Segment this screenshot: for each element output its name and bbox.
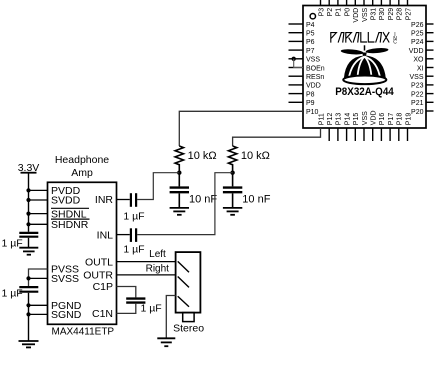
svg-text:P11: P11: [318, 113, 325, 125]
node left filter junction: [177, 171, 181, 175]
svg-text:Left: Left: [149, 249, 166, 260]
chip pin stub P14 (bottom): [346, 128, 348, 141]
connector J1 stereo jack outline: [176, 252, 201, 313]
svg-text:P8: P8: [306, 91, 315, 98]
svg-text:VSS: VSS: [362, 7, 369, 21]
jack contact (tip/Left): [178, 261, 189, 272]
wire left node to INR coupling cap: [137, 173, 179, 200]
svg-text:P21: P21: [411, 100, 424, 107]
chip pin stub P4 (left): [289, 23, 304, 25]
svg-text:BOEn: BOEn: [306, 65, 325, 72]
wire PVSS rail lower: [28, 293, 30, 341]
svg-text:P7: P7: [306, 48, 315, 55]
chip pin stub P30 (top): [380, 0, 382, 6]
svg-text:P12: P12: [327, 113, 334, 126]
chip pin stub VSS (top): [363, 0, 365, 6]
wire C1P stub: [117, 287, 136, 298]
wire SVSS stub: [29, 277, 48, 279]
chip pin stub P29 (top): [389, 0, 391, 6]
svg-text:OUTR: OUTR: [83, 270, 113, 282]
svg-text:SGND: SGND: [51, 309, 82, 321]
svg-text:P9: P9: [306, 100, 315, 107]
chip pin stub P5 (left): [289, 32, 304, 34]
svg-text:P20: P20: [411, 109, 424, 116]
capacitor C4 1 uF (INL coupling): [130, 228, 132, 242]
chip pin stub P26 (right): [426, 23, 434, 25]
svg-text:P31: P31: [371, 8, 378, 21]
svg-text:P6: P6: [306, 39, 315, 46]
svg-text:10 nF: 10 nF: [242, 193, 270, 205]
wire P11 to R2: [233, 128, 321, 146]
junction dot 3.3V rail at SHDNR: [26, 222, 30, 226]
chip pin stub P31 (top): [372, 0, 374, 6]
junction dot SVSS: [26, 276, 30, 280]
svg-text:Right: Right: [146, 264, 170, 275]
wire PGND stub: [29, 304, 48, 306]
svg-text:10 kΩ: 10 kΩ: [241, 150, 270, 162]
chip pin stub P20 (right): [426, 110, 434, 112]
svg-text:P25: P25: [411, 31, 424, 38]
capacitor C2 1 uF (PVSS): [19, 286, 38, 288]
svg-text:P19: P19: [405, 113, 412, 126]
svg-text:SVSS: SVSS: [51, 273, 79, 285]
svg-text:P1: P1: [336, 8, 343, 17]
capacitor C6 10 nF: [232, 173, 234, 187]
resistor R2 10 kOhm: [228, 146, 236, 173]
chip pin stub VSS (left): [289, 58, 304, 60]
svg-text:P29: P29: [388, 8, 395, 21]
chip pin stub P3 (top): [320, 0, 322, 6]
op-amp U2 MAX4411ETP outline: [48, 182, 117, 324]
svg-text:P3: P3: [318, 8, 325, 17]
overline for SHDNR: [51, 218, 90, 220]
wire PVSS to rail: [29, 269, 48, 286]
ground (jack sleeve): [157, 337, 175, 339]
wire C1N stub: [117, 304, 136, 314]
wire 3.3V rail to SHDNL: [29, 213, 48, 215]
overline for SHDNL: [51, 207, 89, 209]
chip pin stub VDD (top): [354, 0, 356, 6]
chip pin stub XI (right): [426, 67, 434, 69]
chip pin stub P24 (right): [426, 40, 434, 42]
chip pin stub VSS (bottom): [363, 128, 365, 141]
jack contact (sleeve): [178, 296, 189, 307]
svg-text:SHDNR: SHDNR: [51, 219, 89, 231]
svg-text:P16: P16: [379, 113, 386, 126]
capacitor C7 1 uF (charge pump): [126, 297, 145, 299]
svg-text:P23: P23: [411, 83, 424, 90]
ground (3.3V bypass): [19, 247, 38, 249]
svg-text:P28: P28: [397, 8, 404, 21]
chip pin stub P28 (top): [398, 0, 400, 6]
Parallax logo wordmark: [331, 33, 389, 42]
svg-text:MAX4411ETP: MAX4411ETP: [51, 326, 114, 337]
svg-text:Headphone: Headphone: [55, 154, 109, 166]
chip U1 pin-1 indicator circle: [310, 14, 315, 19]
wire 3.3V rail to SVDD: [29, 199, 48, 201]
svg-text:XI: XI: [417, 65, 424, 72]
junction dot 3.3V rail at SVDD: [26, 198, 30, 202]
junction dot SGND: [26, 312, 30, 316]
svg-text:P15: P15: [353, 113, 360, 126]
wire OUTL to jack (Left): [117, 261, 176, 263]
chip pin stub P2 (top): [328, 0, 330, 6]
chip pin stub VSS (right): [426, 75, 434, 77]
jack contact (ring/Right): [178, 277, 189, 288]
chip pin stub P23 (right): [426, 84, 434, 86]
ground (right filter): [223, 207, 242, 209]
chip pin stub P21 (right): [426, 101, 434, 103]
chip pin stub XO (right): [426, 58, 434, 60]
svg-text:1 µF: 1 µF: [123, 211, 144, 223]
svg-text:VDD: VDD: [371, 110, 378, 125]
svg-text:1 µF: 1 µF: [123, 244, 144, 256]
chip pin stub P8 (left): [289, 93, 304, 95]
capacitor C3 1 uF (INR coupling): [130, 193, 132, 207]
svg-text:P30: P30: [379, 8, 386, 21]
svg-text:P24: P24: [411, 39, 424, 46]
svg-text:P10: P10: [306, 109, 319, 116]
svg-text:RESn: RESn: [306, 74, 324, 81]
chip pin stub P9 (left): [289, 101, 304, 103]
junction dot PGND: [26, 303, 30, 307]
wire 3.3V rail: [28, 173, 30, 232]
chip U1 P8X32A-Q44 outline: [303, 6, 426, 129]
svg-text:P5: P5: [306, 31, 315, 38]
svg-text:SVDD: SVDD: [51, 195, 81, 207]
chip pin stub P25 (right): [426, 32, 434, 34]
svg-text:INR: INR: [95, 194, 114, 206]
chip pin stub P7 (left): [289, 49, 304, 51]
wire SGND stub: [29, 313, 48, 315]
resistor R1 10 kOhm: [175, 146, 183, 173]
ground (amp rail): [19, 340, 39, 342]
svg-text:P22: P22: [411, 91, 424, 98]
jack tab: [183, 313, 194, 322]
svg-text:P4: P4: [306, 22, 315, 29]
wire INL stub: [117, 234, 130, 236]
ground (left filter): [170, 207, 189, 209]
junction dot 3.3V rail at SHDNL: [26, 212, 30, 216]
chip pin stub P15 (bottom): [354, 128, 356, 141]
svg-text:C1N: C1N: [92, 308, 113, 320]
junction dot VSS-BOEn tie: [292, 57, 296, 61]
svg-text:Amp: Amp: [71, 167, 93, 179]
svg-text:Stereo: Stereo: [173, 323, 204, 335]
svg-text:10 kΩ: 10 kΩ: [188, 150, 217, 162]
chip pin stub P0 (top): [346, 0, 348, 6]
svg-text:XO: XO: [413, 57, 424, 64]
chip pin stub P22 (right): [426, 93, 434, 95]
chip pin stub RESn (left): [289, 75, 304, 77]
chip pin stub P1 (top): [337, 0, 339, 6]
wire P10 to R1: [179, 111, 303, 146]
svg-text:1 µF: 1 µF: [141, 303, 162, 315]
svg-text:P0: P0: [344, 8, 351, 17]
svg-text:P13: P13: [336, 113, 343, 126]
svg-text:OUTL: OUTL: [85, 256, 113, 268]
chip pin stub VDD (bottom): [372, 128, 374, 141]
svg-text:P2: P2: [327, 8, 334, 17]
wire 3.3V rail to SHDNR: [29, 223, 48, 225]
svg-text:INL: INL: [97, 229, 114, 241]
node right filter junction: [230, 171, 234, 175]
capacitor C5 10 nF: [178, 173, 180, 187]
chip pin stub P6 (left): [289, 40, 304, 42]
svg-text:C1P: C1P: [93, 281, 113, 293]
wire OUTR to jack (Right): [117, 274, 176, 276]
svg-text:P8X32A-Q44: P8X32A-Q44: [335, 87, 394, 98]
chip pin stub P19 (bottom): [407, 128, 409, 141]
svg-text:VSS: VSS: [362, 111, 369, 125]
wire INR stub: [117, 199, 130, 201]
svg-text:P26: P26: [411, 22, 424, 29]
svg-text:VSS: VSS: [409, 74, 423, 81]
wire 3.3V rail to PVDD: [29, 189, 48, 191]
junction dot 3.3V rail at PVDD: [26, 188, 30, 192]
svg-text:VDD: VDD: [409, 48, 424, 55]
wire right node to INL coupling cap: [137, 173, 232, 235]
svg-text:P17: P17: [388, 113, 395, 126]
Parallax propeller-beanie logo: [341, 45, 389, 84]
svg-text:VSS: VSS: [306, 57, 320, 64]
svg-text:P14: P14: [344, 113, 351, 126]
capacitor C1 1 uF (3.3V bypass): [19, 232, 38, 234]
chip pin stub VDD (left): [289, 84, 304, 86]
wire jack sleeve to ground: [166, 296, 175, 338]
svg-text:1 µF: 1 µF: [2, 288, 23, 300]
chip pin stub P18 (bottom): [398, 128, 400, 141]
svg-text:VDD: VDD: [306, 83, 321, 90]
svg-text:P18: P18: [397, 113, 404, 126]
chip pin stub VDD (right): [426, 49, 434, 51]
chip pin stub P17 (bottom): [389, 128, 391, 141]
svg-text:10 nF: 10 nF: [189, 193, 217, 205]
chip pin stub BOEn (left): [289, 67, 304, 69]
svg-text:VDD: VDD: [353, 8, 360, 23]
chip pin stub P13 (bottom): [337, 128, 339, 141]
chip pin stub P27 (top): [407, 0, 409, 6]
chip pin stub P12 (bottom): [328, 128, 330, 141]
svg-text:C: C: [393, 39, 397, 45]
chip pin stub P16 (bottom): [380, 128, 382, 141]
wire VSS to BOEn: [294, 59, 303, 68]
svg-text:P27: P27: [405, 8, 412, 21]
